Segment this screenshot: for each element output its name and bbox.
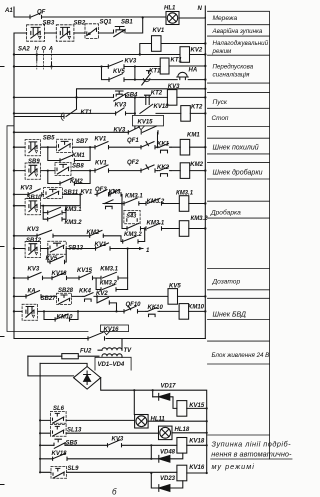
svg-text:Пуск: Пуск <box>213 99 228 106</box>
svg-text:KV1: KV1 <box>153 28 165 34</box>
svg-text:QF1: QF1 <box>127 138 139 144</box>
contact KV15 doz <box>77 268 93 280</box>
svg-text:KV15: KV15 <box>77 268 93 274</box>
button SB5 low <box>54 439 78 448</box>
contactor coil KM2 <box>180 162 203 178</box>
svg-text:SB10: SB10 <box>27 195 43 201</box>
svg-text:KM3.2: KM3.2 <box>124 232 142 238</box>
svg-text:KV3: KV3 <box>27 227 39 233</box>
svg-text:KV3: KV3 <box>115 103 127 109</box>
svg-text:KV18: KV18 <box>154 104 170 110</box>
flag label KV15 <box>133 115 164 129</box>
bus left vertical <box>13 33 15 339</box>
svg-text:Налагоджувальний: Налагоджувальний <box>213 40 269 47</box>
svg-text:KM1: KM1 <box>72 153 85 159</box>
svg-text:KM2: KM2 <box>87 230 100 236</box>
node SA2 pos H <box>36 53 38 60</box>
button SB12 mushroom <box>25 238 42 258</box>
svg-text:N: N <box>198 6 203 12</box>
contact KM3.2 hold <box>43 213 82 227</box>
thermal contact KK3 <box>103 189 121 208</box>
svg-text:SB8: SB8 <box>72 164 84 170</box>
svg-text:KT1: KT1 <box>149 69 161 75</box>
svg-text:KV2: KV2 <box>191 47 203 53</box>
svg-text:S43: S43 <box>126 213 137 219</box>
contact KV1 <box>95 137 109 149</box>
svg-text:KV18: KV18 <box>52 451 68 457</box>
svg-text:TV: TV <box>124 348 133 354</box>
contact KV16 <box>88 332 105 340</box>
svg-text:KT2: KT2 <box>191 104 203 110</box>
wire stop chain <box>14 132 158 147</box>
button SB27 mushroom <box>22 304 37 320</box>
contact KV2 int <box>96 291 117 311</box>
node row label Drobarka <box>210 209 241 217</box>
svg-text:KM10: KM10 <box>57 315 74 321</box>
node row label Peredpuskova sygnalizatsiia <box>213 64 254 79</box>
wire block left loop <box>28 356 74 376</box>
svg-text:KM10: KM10 <box>188 305 205 311</box>
label table separators <box>208 25 293 459</box>
button SB28 <box>41 288 74 304</box>
breaker contact QF3 <box>95 187 121 196</box>
contact KV3 stop <box>114 127 140 134</box>
svg-text:Шнек дробарки: Шнек дробарки <box>213 169 263 177</box>
svg-text:VD1–VD4: VD1–VD4 <box>98 362 125 368</box>
svg-text:Аварійна зупинка: Аварійна зупинка <box>212 28 263 35</box>
breaker QF <box>30 10 46 19</box>
button SB3 <box>27 21 55 42</box>
level switch SL9 <box>51 466 79 478</box>
relay coil KT2 <box>181 104 206 121</box>
svg-text:SB7: SB7 <box>76 139 88 145</box>
svg-text:QF3: QF3 <box>95 187 107 193</box>
relay coil KT1 <box>160 58 205 75</box>
contact KV3 doz <box>28 267 43 280</box>
lamp HL1 <box>164 6 179 25</box>
wire bvd row1 <box>14 295 205 297</box>
svg-text:KM3.1: KM3.1 <box>147 221 165 227</box>
button SB11 <box>44 188 79 199</box>
node part label b <box>112 488 117 497</box>
svg-text:QF10: QF10 <box>126 302 142 308</box>
fuse FU2 <box>28 348 99 358</box>
contact KV5 hold <box>46 249 67 264</box>
svg-text:KV15: KV15 <box>138 120 154 126</box>
wire row SB5 <box>40 444 177 446</box>
svg-text:Дробарка: Дробарка <box>210 209 241 217</box>
wire stop row <box>14 112 181 114</box>
svg-text:SB1: SB1 <box>121 20 133 26</box>
breaker contact QF1 <box>127 138 155 149</box>
node row label Dozator <box>212 279 241 286</box>
rectifier label box VD1-VD4 <box>95 357 131 370</box>
svg-text:KV1: KV1 <box>95 242 107 248</box>
contact KM3.1 b <box>146 221 165 231</box>
svg-text:SQ1: SQ1 <box>100 20 113 26</box>
level switch SL6 <box>51 406 67 423</box>
svg-text:SB11: SB11 <box>64 190 79 196</box>
wire row SB chain <box>14 17 143 33</box>
svg-text:VD23: VD23 <box>160 476 176 482</box>
contact KT1 timed <box>142 69 161 85</box>
wire rung A <box>14 66 160 68</box>
wire arrow out 1 <box>128 247 150 254</box>
svg-text:KM2: KM2 <box>70 179 83 185</box>
svg-text:KM2: KM2 <box>190 162 203 168</box>
wire HL11 to bus <box>148 420 207 422</box>
svg-text:KV15: KV15 <box>189 403 205 409</box>
wire bridge minus rail <box>101 378 207 473</box>
contact KV3 drob <box>21 185 42 196</box>
button SB7 <box>57 139 89 152</box>
wire kv16 row <box>14 338 205 340</box>
node row label Zupynka linii <box>211 440 292 472</box>
svg-text:Мережа: Мережа <box>213 15 238 22</box>
net N <box>198 6 206 339</box>
svg-text:му режимі: му режимі <box>212 462 255 471</box>
svg-text:SB3: SB3 <box>43 21 55 27</box>
wire HL18 to bus <box>172 432 207 434</box>
contact KM10 hold <box>44 311 78 321</box>
svg-text:KV3: KV3 <box>125 59 137 65</box>
svg-text:SB2: SB2 <box>74 21 86 27</box>
node row label Merezha <box>213 15 238 22</box>
wire lamp to N <box>179 16 205 19</box>
svg-text:KT1: KT1 <box>81 110 93 116</box>
svg-text:КМ3.1: КМ3.1 <box>176 191 194 197</box>
wire start row upper <box>77 89 206 98</box>
node row label Shnek drobarky <box>213 169 263 177</box>
svg-text:б: б <box>112 488 117 497</box>
svg-text:HL1: HL1 <box>164 6 176 12</box>
contact KA <box>26 288 41 298</box>
wire stub VD17 <box>152 390 154 397</box>
contactor coil KM3.1 <box>176 191 194 212</box>
contact KM2 hold <box>48 171 90 186</box>
contact KV3 <box>108 59 137 69</box>
contact KV1 drob <box>95 160 109 172</box>
wire bvd row2 <box>14 310 205 312</box>
wire dozator riser <box>127 249 129 290</box>
svg-text:SL9: SL9 <box>68 466 80 472</box>
wire sb10 row <box>14 194 80 205</box>
button SB1 <box>114 20 134 37</box>
lamp HL18 <box>159 426 190 440</box>
svg-text:KV1: KV1 <box>95 137 107 143</box>
svg-text:VD17: VD17 <box>161 383 177 389</box>
wire cluster bus left <box>39 363 41 472</box>
wire shnek drobarky row <box>14 170 205 172</box>
switch S43 <box>124 210 140 223</box>
thermal contact KK2 <box>157 165 171 176</box>
svg-text:нення в автоматично-: нення в автоматично- <box>211 450 292 459</box>
svg-text:KV3: KV3 <box>112 436 124 442</box>
svg-text:QF2: QF2 <box>127 160 139 166</box>
bell HA <box>177 67 197 79</box>
breaker contact QF10 <box>124 302 141 313</box>
button SB13 <box>48 241 84 254</box>
wire row SL9 <box>40 471 177 473</box>
wire drobarka branchA <box>103 203 205 205</box>
lamp HL11 <box>135 415 166 429</box>
svg-text:KV18: KV18 <box>52 271 68 277</box>
svg-text:QF: QF <box>37 10 46 16</box>
contact KV18 <box>154 104 170 110</box>
button SB2 <box>56 21 86 42</box>
contact KM3.2 doz <box>96 278 128 291</box>
wire secondary down <box>121 356 123 357</box>
wire start row <box>14 96 135 98</box>
contact KV15 <box>141 126 158 134</box>
wire row SL13 <box>40 432 158 434</box>
svg-text:KV16: KV16 <box>189 465 205 471</box>
contact KV1 drob2 <box>81 190 109 196</box>
svg-text:КМ3.1: КМ3.1 <box>65 207 83 213</box>
svg-text:KK2: KK2 <box>157 165 170 171</box>
contact KM3.1 <box>124 193 143 205</box>
diode VD48 <box>151 445 183 462</box>
svg-text:KV1: KV1 <box>81 190 93 196</box>
node A1 <box>4 8 13 14</box>
thermal contact KK4 <box>79 288 93 301</box>
wire bell row <box>135 79 205 81</box>
relay coil KV18 <box>177 438 207 454</box>
node row label Shnek pokhylyi <box>213 144 259 152</box>
svg-text:KK3: KK3 <box>109 189 122 195</box>
edge marks left <box>0 67 4 485</box>
wire rung H <box>14 54 180 56</box>
wire dozator row2 <box>14 277 128 279</box>
svg-text:A1: A1 <box>4 8 13 14</box>
contactor coil KM3.2 <box>179 216 208 236</box>
svg-text:SB12: SB12 <box>26 238 42 244</box>
svg-text:SA2: SA2 <box>18 47 30 53</box>
relay coil KV5 <box>168 283 181 304</box>
contact KV18 low <box>40 451 151 460</box>
thermal contact KK10 <box>146 305 164 317</box>
svg-text:Передпускова: Передпускова <box>213 64 254 71</box>
level switch SL13 <box>51 424 83 436</box>
svg-text:KK4: KK4 <box>79 288 92 294</box>
node row label Shnek BVD <box>213 312 247 319</box>
relay coil KV3 <box>135 84 205 105</box>
contact KT1 delayed close <box>14 97 92 120</box>
svg-text:SL13: SL13 <box>67 427 82 433</box>
svg-text:KV3: KV3 <box>168 84 180 90</box>
node row label Pusk <box>213 99 228 106</box>
svg-text:KV3: KV3 <box>114 127 126 133</box>
svg-text:Зупинка лінії подріб-: Зупинка лінії подріб- <box>212 440 292 449</box>
svg-text:SB9: SB9 <box>28 159 40 165</box>
wire drobarka row1 <box>14 194 122 203</box>
svg-text:KK1: KK1 <box>157 142 170 148</box>
enclosure box local <box>7 126 88 332</box>
svg-text:SB27: SB27 <box>41 296 57 302</box>
svg-text:O: O <box>42 46 47 52</box>
contact KV3 hold <box>115 103 127 115</box>
svg-text:KT2: KT2 <box>151 91 163 97</box>
wire drobarka branchB riser <box>121 204 123 229</box>
svg-text:FU2: FU2 <box>80 348 92 354</box>
contact KM2 int <box>87 230 104 237</box>
svg-text:A: A <box>48 46 53 52</box>
svg-text:SB13: SB13 <box>68 245 84 251</box>
svg-text:KV1: KV1 <box>95 160 107 166</box>
button SB10 mushroom <box>25 195 42 215</box>
svg-text:VD48: VD48 <box>160 449 176 455</box>
svg-text:Стоп: Стоп <box>212 115 229 122</box>
wire shnek pokhylyi row <box>14 146 205 148</box>
flag label KV16 <box>101 325 129 335</box>
wire top to lamp <box>42 16 167 18</box>
wire kv3 km2 row <box>14 229 145 242</box>
svg-text:KV3: KV3 <box>21 185 33 191</box>
svg-text:Блок живлення 24 В: Блок живлення 24 В <box>212 352 270 359</box>
svg-text:KV16: KV16 <box>104 327 120 333</box>
contact KT2 timed <box>135 91 163 129</box>
svg-text:Дозатор: Дозатор <box>212 279 241 286</box>
button SB8 <box>55 162 84 175</box>
svg-text:KM3.2: KM3.2 <box>147 199 165 205</box>
svg-text:KV5: KV5 <box>169 283 181 289</box>
node row label Stop <box>212 115 229 122</box>
svg-text:SB28: SB28 <box>58 288 74 294</box>
svg-text:КМ3.2: КМ3.2 <box>191 216 209 222</box>
diode bridge VD1-VD4 <box>74 367 101 390</box>
contact KM3.1 hold <box>43 206 82 215</box>
svg-text:KM3.1: KM3.1 <box>100 267 118 273</box>
contact KV3 low <box>108 436 124 447</box>
svg-text:KK10: KK10 <box>148 305 164 311</box>
contact KM1 hold <box>48 147 90 162</box>
button SB6 mushroom <box>25 135 55 156</box>
wire drobarka branchB <box>122 228 205 230</box>
button SB4 <box>114 91 139 101</box>
diode VD23 <box>151 473 183 491</box>
contact KV5 <box>102 67 135 82</box>
relay coil KV16 <box>177 465 207 481</box>
relay coil KV2 <box>180 47 205 63</box>
node row label Blok zhyvlennia <box>212 352 270 359</box>
wire bridge plus <box>40 363 87 366</box>
contact KV1 doz <box>95 242 111 250</box>
svg-text:KT1: KT1 <box>171 58 183 64</box>
svg-text:КМ3.2: КМ3.2 <box>100 281 118 287</box>
svg-text:SB5: SB5 <box>43 135 55 141</box>
svg-text:Шнек БВД: Шнек БВД <box>213 312 247 319</box>
switch SA2 selector <box>18 46 53 69</box>
svg-text:сигналізація: сигналізація <box>213 71 250 79</box>
contact S43 blade <box>127 223 141 230</box>
node row label Avariina zupynka <box>212 28 263 35</box>
thermal contact KK1 <box>157 142 171 153</box>
svg-text:KV3: KV3 <box>28 267 40 273</box>
svg-text:КА: КА <box>28 288 36 294</box>
node SA2 pos A <box>50 63 52 68</box>
relay coil KV15 <box>177 401 207 417</box>
wire row SL6 <box>40 419 135 421</box>
contact KM3.2 <box>146 198 165 205</box>
button SB9 mushroom <box>25 159 40 179</box>
contactor coil KM10 <box>179 304 205 320</box>
svg-text:HA: HA <box>189 67 198 73</box>
contact KM3.2 int <box>123 232 143 243</box>
relay coil KV1 <box>140 28 206 55</box>
transformer TV <box>98 339 132 357</box>
svg-text:KM1: KM1 <box>187 133 200 139</box>
svg-text:SL6: SL6 <box>53 406 65 412</box>
wire A1 feed <box>14 7 30 17</box>
node row label Nalagodzhuvalnyi rezhym <box>212 40 269 55</box>
contact KM3.1 doz <box>100 267 118 280</box>
wire stub HL11 <box>133 390 135 414</box>
svg-text:KV18: KV18 <box>189 438 205 444</box>
switch SQ1 <box>85 20 112 39</box>
svg-text:Шнек похилий: Шнек похилий <box>213 144 259 152</box>
contact KV3 row3 <box>27 227 53 237</box>
breaker contact QF2 <box>127 160 155 172</box>
svg-text:KM3.1: KM3.1 <box>125 193 143 199</box>
svg-text:KV5: KV5 <box>46 256 58 262</box>
svg-text:режим: режим <box>212 48 233 55</box>
diode VD17 <box>153 383 177 408</box>
svg-text:КМ3.2: КМ3.2 <box>65 220 83 226</box>
node junction top <box>142 16 144 18</box>
svg-text:KV5: KV5 <box>113 69 125 75</box>
wire dozator row <box>14 248 128 250</box>
contactor coil KM1 <box>180 133 200 155</box>
label table frame <box>208 11 270 459</box>
contact KV18 doz <box>52 271 68 279</box>
